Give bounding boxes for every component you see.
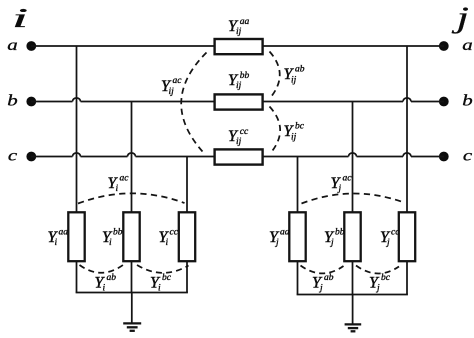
svg-text:bc: bc	[162, 273, 172, 283]
mutual shunt arc Yi-ac	[78, 193, 185, 203]
terminal node j-c	[439, 152, 449, 162]
ground right	[345, 324, 362, 331]
svg-text:ij: ij	[291, 132, 297, 142]
wire hop at crossing (352.5,156.5)	[349, 153, 357, 157]
wire dropper phase c to Yj-aa	[297, 157, 299, 214]
mutual admittance arc Yij-ab	[270, 52, 280, 98]
wire hop at crossing (76.5,156.5)	[73, 153, 81, 157]
svg-text:cc: cc	[170, 228, 179, 238]
ground left	[123, 323, 141, 330]
svg-text:ij: ij	[236, 81, 242, 91]
svg-text:ab: ab	[324, 273, 334, 283]
svg-text:ac: ac	[120, 174, 130, 184]
wire phase a right segment	[263, 45, 444, 47]
svg-text:c: c	[463, 147, 472, 164]
shunt admittance Yi-aa	[68, 212, 84, 261]
series admittance Yij-cc	[215, 149, 263, 164]
wire hop at crossing (407,156.5)	[403, 153, 411, 157]
wire phase b left segment	[31, 101, 214, 103]
mutual shunt arc Yj-ab	[301, 266, 344, 274]
shunt admittance Yj-bb	[344, 212, 360, 261]
wire stub Yj-bb to rail	[352, 261, 354, 295]
terminal node i-c	[26, 152, 36, 162]
svg-text:i: i	[166, 238, 169, 248]
wire dropper phase a to Yj-cc	[406, 46, 408, 213]
wire stub Yj-cc to rail	[406, 261, 408, 295]
svg-text:j: j	[451, 1, 469, 34]
shunt admittance Yi-bb	[123, 212, 139, 261]
wire phase a left segment	[31, 45, 214, 47]
wire phase c left segment	[31, 156, 214, 158]
wire rail right shunt	[297, 294, 408, 296]
svg-text:ij: ij	[291, 75, 297, 85]
wire stub Yi-bb to rail	[131, 261, 133, 293]
shunt admittance Yi-cc	[179, 212, 195, 261]
shunt admittance Yj-cc	[399, 212, 415, 261]
mutual shunt arc Yi-ab	[80, 265, 124, 273]
svg-text:ac: ac	[173, 76, 183, 86]
mutual shunt arc Yj-ac	[302, 193, 405, 203]
svg-text:bc: bc	[381, 273, 391, 283]
series admittance Yij-bb	[215, 94, 263, 109]
wire dropper phase b to Yi-bb	[131, 102, 133, 214]
svg-text:c: c	[8, 147, 17, 164]
svg-text:ac: ac	[343, 174, 353, 184]
wire hop at crossing (131.5,156.5)	[128, 153, 136, 157]
svg-text:cc: cc	[240, 127, 249, 137]
wire stub Yi-cc to rail	[186, 261, 188, 293]
series admittance Yij-aa	[215, 39, 263, 54]
svg-text:i: i	[55, 238, 58, 248]
wire stub Yi-aa to rail	[76, 261, 78, 293]
svg-text:ij: ij	[236, 27, 242, 37]
terminal node j-b	[439, 97, 449, 107]
svg-text:cc: cc	[391, 228, 400, 238]
mutual shunt arc Yj-bc	[356, 266, 399, 274]
svg-text:a: a	[7, 36, 17, 53]
wire dropper phase c to Yi-cc	[186, 157, 188, 214]
wire rail left shunt	[76, 292, 188, 294]
wire dropper phase a to Yi-aa	[76, 46, 78, 213]
wire phase b right segment	[263, 101, 444, 103]
mutual shunt arc Yi-bc	[137, 265, 189, 273]
wire hop at crossing (407,101.5)	[403, 98, 411, 102]
mutual admittance arc Yij-ac	[181, 53, 206, 152]
svg-text:b: b	[462, 92, 472, 109]
svg-text:aa: aa	[59, 228, 69, 238]
svg-text:i: i	[109, 238, 112, 248]
svg-text:bb: bb	[240, 71, 250, 81]
svg-text:bb: bb	[113, 228, 123, 238]
wire phase c right segment	[263, 156, 444, 158]
svg-text:bc: bc	[295, 122, 305, 132]
svg-text:b: b	[7, 92, 17, 109]
shunt admittance Yj-aa	[289, 212, 305, 261]
wire dropper phase b to Yj-bb	[352, 102, 354, 214]
mutual admittance arc Yij-bc	[270, 107, 281, 153]
wire hop at crossing (76.5,101.5)	[73, 98, 81, 102]
wire stub Yj-aa to rail	[297, 261, 299, 295]
svg-text:i: i	[12, 3, 29, 33]
svg-text:i: i	[116, 184, 119, 194]
wire ground stem left	[131, 293, 133, 323]
svg-text:a: a	[462, 36, 472, 53]
terminal node i-a	[26, 41, 36, 51]
wire ground stem right	[352, 295, 354, 324]
terminal node i-b	[26, 97, 36, 107]
svg-text:aa: aa	[280, 228, 290, 238]
svg-text:ab: ab	[107, 273, 117, 283]
svg-text:aa: aa	[240, 17, 250, 27]
svg-text:ab: ab	[295, 65, 305, 75]
terminal node j-a	[439, 41, 449, 51]
svg-text:ij: ij	[236, 137, 242, 147]
svg-text:ij: ij	[169, 87, 175, 97]
svg-text:bb: bb	[335, 228, 345, 238]
